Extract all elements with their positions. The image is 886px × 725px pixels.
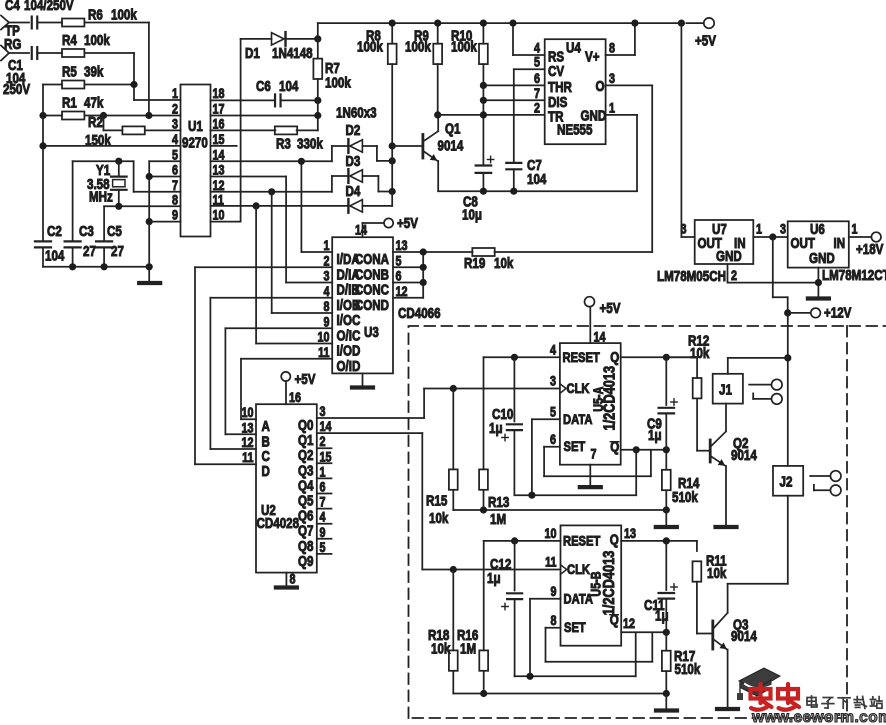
junction: [39, 112, 46, 119]
svg-text:4: 4: [534, 40, 540, 55]
svg-text:7: 7: [591, 446, 597, 461]
transistor Q2 9014: [697, 404, 757, 527]
svg-text:14: 14: [320, 419, 332, 434]
svg-text:1: 1: [323, 238, 329, 253]
svg-text:8: 8: [323, 299, 329, 314]
svg-text:9: 9: [320, 525, 326, 540]
svg-text:1M: 1M: [460, 640, 476, 657]
svg-text:18: 18: [213, 86, 225, 101]
svg-text:14: 14: [213, 147, 225, 162]
svg-text:9: 9: [323, 314, 329, 329]
U2 pin 5 Q9: [298, 540, 326, 569]
junction: [663, 354, 670, 361]
svg-text:Q7: Q7: [298, 522, 313, 539]
diode D2: [346, 122, 363, 153]
resistor R5: [62, 63, 104, 88]
resistor R12: [666, 332, 710, 450]
svg-text:14: 14: [355, 222, 367, 237]
svg-text:10μ: 10μ: [462, 206, 482, 223]
junction: [434, 111, 441, 118]
junction: [450, 385, 457, 392]
wire pin18-pin10 vertical: [211, 39, 241, 222]
diode D4: [346, 183, 363, 213]
svg-text:12: 12: [396, 284, 408, 299]
wire +12V rail into box: [787, 313, 789, 466]
svg-text:LM78M05CH: LM78M05CH: [657, 268, 726, 285]
U5-A DATA pin 5: [532, 404, 560, 495]
svg-text:1μ: 1μ: [487, 570, 501, 587]
power +5V terminal: [678, 18, 716, 237]
svg-text:5: 5: [534, 55, 540, 70]
wire DIS row: [483, 99, 544, 101]
wire U1 pin6: [149, 176, 180, 178]
junction: [146, 218, 153, 225]
input terminal TP: [1, 16, 29, 39]
U2 pin 8 ground: [276, 571, 297, 587]
svg-text:10k: 10k: [429, 510, 449, 527]
svg-text:100k: 100k: [84, 32, 110, 49]
U3 pin 9 O/IC: [323, 314, 360, 343]
junction: [69, 263, 76, 270]
svg-text:U4: U4: [566, 39, 581, 56]
svg-text:10: 10: [317, 329, 329, 344]
svg-text:3: 3: [550, 373, 556, 388]
svg-text:104: 104: [527, 171, 547, 188]
resistor R18: [428, 570, 458, 694]
svg-text:13: 13: [624, 526, 636, 541]
junction: [815, 279, 822, 286]
resistor R2: [85, 114, 181, 149]
U5-B Q row 13: [621, 526, 697, 541]
resistor R7: [313, 39, 351, 101]
U4 pin 2 TR: [534, 100, 564, 125]
IC U7 LM78M05CH: [657, 220, 762, 284]
svg-text:Q: Q: [610, 349, 619, 366]
svg-text:LM78M12CT: LM78M12CT: [822, 267, 886, 284]
junction: [389, 188, 396, 195]
wire C6 right: [281, 99, 318, 101]
svg-text:8: 8: [172, 192, 178, 207]
wire pin17 row: [211, 100, 318, 130]
junction: [663, 690, 670, 697]
resistor R11: [693, 541, 727, 634]
junction: [115, 203, 122, 210]
svg-text:5: 5: [172, 147, 178, 162]
svg-text:R1: R1: [62, 94, 77, 111]
U1 pin 4 number: [172, 132, 178, 147]
U3 pin 1 I/DA: [323, 238, 360, 267]
resistor R19: [423, 248, 652, 271]
junction: [480, 82, 487, 89]
wire D3 right jog: [362, 176, 392, 192]
svg-text:13: 13: [396, 238, 408, 253]
U3 pin 4 I/OB: [323, 284, 360, 313]
svg-text:Q: Q: [610, 531, 619, 548]
U1 pin 17 number: [213, 101, 225, 116]
junction: [39, 142, 46, 149]
wire pin12 row: [211, 191, 332, 193]
wire D2 left jog: [301, 146, 348, 161]
capacitor C3: [65, 161, 96, 267]
svg-text:+5V: +5V: [295, 371, 316, 388]
U1 pin 18 number: [213, 86, 225, 101]
svg-text:10k: 10k: [431, 640, 451, 657]
svg-text:7: 7: [320, 494, 326, 509]
junction: [101, 263, 108, 270]
svg-text:2: 2: [320, 434, 326, 449]
svg-text:IN: IN: [834, 235, 846, 252]
wire D4 right: [362, 205, 392, 207]
junction: [480, 690, 487, 697]
U2 pin 2 Q2: [298, 434, 326, 463]
U2 pin 11 D: [242, 450, 270, 479]
resistor R10: [451, 23, 488, 165]
U5-B RESET pin 10: [484, 526, 561, 541]
wire cap ground row: [43, 266, 149, 268]
capacitor C10: [489, 357, 522, 495]
svg-text:27: 27: [111, 243, 124, 260]
svg-text:1μ: 1μ: [489, 420, 503, 437]
U2 pin 3 Q0: [298, 404, 326, 433]
U2 pin 9 Q8: [298, 525, 326, 554]
svg-text:O/ID: O/ID: [337, 358, 361, 375]
junction: [663, 629, 670, 636]
U1 pin 6 number: [172, 162, 178, 177]
wire R5 left: [43, 84, 62, 86]
ground: [139, 267, 160, 283]
svg-text:8: 8: [550, 613, 556, 628]
U1 pin 7 number: [172, 178, 178, 193]
junction: [314, 35, 321, 42]
resistor R15: [426, 389, 458, 527]
U2 Q5 stub: [317, 493, 332, 495]
junction: [510, 188, 517, 195]
U2 Q8 stub: [317, 538, 332, 540]
wire C12-DATA-Qbar link: [515, 632, 636, 676]
resistor R8: [357, 23, 397, 206]
svg-text:15: 15: [320, 449, 332, 464]
resistor R1: [62, 94, 104, 119]
capacitor C4: [5, 0, 74, 28]
U5-A pin 7 ground: [580, 446, 601, 487]
capacitor C1: [3, 47, 62, 97]
svg-text:CONC: CONC: [355, 281, 390, 298]
svg-text:4: 4: [550, 342, 556, 357]
U2 pin 14 Q1: [298, 419, 332, 448]
junction: [633, 446, 640, 453]
crystal Y1: [87, 161, 127, 206]
svg-text:100k: 100k: [325, 74, 351, 91]
svg-text:39k: 39k: [84, 63, 104, 80]
wire U1 pin11 to U3 pin10: [256, 206, 332, 344]
capacitor C5: [96, 206, 124, 266]
wire U2 Q0 to U5A CLK: [317, 389, 424, 419]
U2 pin 12 C: [241, 435, 270, 464]
svg-text:330k: 330k: [297, 135, 323, 152]
svg-text:1/2CD4013: 1/2CD4013: [601, 551, 619, 616]
svg-text:C6: C6: [256, 78, 271, 95]
svg-text:10k: 10k: [494, 255, 514, 272]
wire U3 pin9 to U2 B: [225, 328, 332, 434]
svg-text:3: 3: [323, 268, 329, 283]
wire CON bus: [393, 252, 423, 298]
svg-text:RESET: RESET: [563, 533, 601, 548]
wire U1 pin5 gnd net: [149, 161, 180, 266]
svg-text:15: 15: [213, 132, 225, 147]
svg-text:100k: 100k: [357, 38, 383, 55]
U7 GND pin 2: [728, 264, 819, 283]
U3 pin 3 D/IB: [323, 268, 359, 297]
wire pin11 row: [211, 205, 349, 207]
junction: [314, 97, 321, 104]
svg-text:CD4066: CD4066: [398, 305, 441, 322]
dashed enclosure: [409, 326, 886, 718]
J1 contact: [749, 379, 782, 404]
U3 pin 11 O/ID: [318, 345, 360, 374]
svg-text:GND: GND: [716, 248, 742, 265]
svg-text:R3: R3: [276, 135, 291, 152]
watermark text site: [807, 696, 882, 708]
svg-text:7: 7: [534, 86, 540, 101]
U2 Q6 stub: [317, 508, 332, 510]
wire U7 IN row: [753, 236, 787, 238]
svg-text:Q9: Q9: [298, 553, 313, 570]
wire pin2 row: [85, 115, 181, 117]
svg-text:1: 1: [172, 86, 178, 101]
U2 pin 7 Q6: [298, 494, 326, 523]
junction: [389, 20, 396, 27]
svg-text:Q: Q: [610, 438, 619, 455]
svg-text:5: 5: [320, 540, 326, 555]
svg-text:4: 4: [172, 132, 178, 147]
svg-text:6: 6: [396, 268, 402, 283]
svg-text:16: 16: [289, 390, 301, 405]
svg-text:2: 2: [731, 268, 737, 283]
capacitor C9: [647, 357, 677, 450]
capacitor C6: [256, 78, 299, 107]
svg-text:104: 104: [279, 78, 299, 95]
svg-text:4: 4: [323, 284, 329, 299]
svg-text:CONA: CONA: [355, 251, 390, 268]
svg-text:Q4: Q4: [298, 477, 314, 494]
svg-text:R13: R13: [488, 494, 509, 511]
J2 contact: [810, 471, 841, 496]
svg-text:Q6: Q6: [298, 507, 313, 524]
svg-text:8: 8: [290, 571, 296, 586]
U5-A SET pin 6: [544, 432, 651, 476]
svg-text:J2: J2: [780, 473, 793, 490]
svg-text:J1: J1: [719, 381, 732, 398]
wire pin13 to U3 pin3: [211, 177, 333, 283]
U1 pin 3 number: [172, 116, 178, 131]
U3 pin 8 I/OC: [323, 299, 360, 328]
capacitor C12: [487, 541, 522, 676]
junction: [511, 537, 518, 544]
svg-text:7: 7: [172, 178, 178, 193]
svg-text:13: 13: [213, 162, 225, 177]
svg-text:3: 3: [780, 221, 786, 236]
resistor R16: [457, 541, 488, 694]
svg-text:3: 3: [680, 221, 686, 236]
wire R1 left: [43, 115, 62, 117]
U4 pin 6 THR: [534, 71, 572, 96]
svg-text:5: 5: [550, 404, 556, 419]
svg-text:1: 1: [609, 100, 615, 115]
svg-text:SET: SET: [564, 620, 586, 635]
junction: [480, 111, 487, 118]
U3 pin 5 CONB: [355, 253, 402, 282]
svg-text:510k: 510k: [672, 489, 698, 506]
junction: [434, 20, 441, 27]
wire U1 pin12 to U3 pin8: [272, 192, 333, 313]
U3 pin 12 COND: [355, 284, 408, 313]
junction: [146, 173, 153, 180]
junction: [480, 188, 487, 195]
svg-text:U6: U6: [810, 221, 825, 238]
svg-text:+18V: +18V: [856, 241, 884, 258]
svg-text:104/250V: 104/250V: [24, 0, 74, 13]
wire R6 to pin2 node: [85, 23, 149, 116]
svg-text:11: 11: [318, 345, 330, 360]
wire U1 pin9: [149, 221, 180, 223]
svg-text:1: 1: [320, 464, 326, 479]
resistor R14: [662, 450, 700, 510]
svg-text:C: C: [262, 448, 271, 465]
svg-text:9: 9: [172, 207, 178, 222]
U2 pin 13 B: [241, 420, 269, 449]
capacitor C7: [506, 69, 547, 191]
diode D3: [332, 153, 363, 192]
wire Q3 collector to J2: [728, 496, 788, 584]
resistor R17: [662, 632, 701, 693]
U2 Q4 stub: [317, 477, 332, 479]
svg-text:8: 8: [609, 40, 615, 55]
wire pin14 to U3 pin1: [211, 161, 333, 252]
diode D1 1N4148: [241, 32, 318, 61]
U2 pin 10 A: [241, 405, 270, 434]
U2 pin 1 Q4: [298, 464, 326, 493]
svg-text:9014: 9014: [731, 628, 757, 645]
svg-text:Q1: Q1: [298, 432, 313, 449]
svg-text:12: 12: [623, 616, 635, 631]
wire THR row: [483, 84, 544, 86]
svg-text:1: 1: [756, 221, 762, 236]
transistor Q3 9014: [697, 584, 758, 709]
U2 Q9 stub: [317, 553, 332, 555]
junction: [100, 112, 107, 119]
svg-text:9014: 9014: [438, 137, 464, 154]
wire bottom ground row: [453, 693, 666, 695]
svg-text:COND: COND: [355, 297, 389, 314]
junction: [420, 248, 427, 255]
junction: [480, 506, 487, 513]
junction: [509, 20, 516, 27]
svg-text:O/IC: O/IC: [337, 327, 361, 344]
U1 pin 10 number: [213, 207, 225, 222]
ground: [808, 296, 829, 300]
U2 pin 6 Q5: [298, 479, 326, 508]
resistor R4: [62, 32, 110, 57]
U1 pin 8 number: [172, 192, 178, 207]
junction: [298, 158, 305, 165]
junction: [420, 264, 427, 271]
svg-text:U3: U3: [364, 324, 379, 341]
svg-text:C5: C5: [107, 223, 122, 240]
svg-text:6: 6: [320, 479, 326, 494]
power +12V terminal: [784, 304, 852, 321]
svg-text:A: A: [262, 418, 271, 435]
U4 pin 3 output: [596, 71, 653, 252]
U5-B DATA pin 9: [530, 584, 561, 676]
svg-text:10: 10: [544, 526, 556, 541]
resistor R13: [479, 357, 509, 527]
resistor R9: [405, 23, 442, 115]
capacitor C2: [35, 223, 65, 267]
U1 pin 13 number: [213, 162, 225, 177]
wire pin18 row: [211, 99, 276, 101]
U2 Q2 stub: [317, 447, 332, 449]
svg-text:+12V: +12V: [824, 304, 852, 321]
junction: [663, 446, 670, 453]
svg-text:1μ: 1μ: [648, 427, 662, 444]
svg-text:CLK: CLK: [567, 562, 591, 577]
U1 pin 1 number: [172, 86, 178, 101]
svg-text:100k: 100k: [405, 38, 431, 55]
IC U2 CD4028: [256, 404, 317, 572]
svg-text:D4: D4: [346, 183, 361, 200]
svg-text:R15: R15: [426, 492, 447, 509]
svg-text:CONB: CONB: [355, 266, 389, 283]
svg-text:1/2CD4013: 1/2CD4013: [601, 366, 619, 431]
capacitor C11: [644, 541, 677, 632]
junction: [631, 20, 638, 27]
svg-text:6: 6: [172, 162, 178, 177]
svg-text:14: 14: [594, 329, 606, 344]
svg-text:R4: R4: [62, 32, 77, 49]
svg-text:10k: 10k: [690, 345, 710, 362]
input terminal RG: [1, 36, 29, 61]
svg-text:GND: GND: [809, 250, 835, 267]
label 1N60x3: [336, 104, 377, 121]
U1 pin 14 number: [213, 147, 225, 162]
svg-text:+5V: +5V: [600, 300, 621, 317]
junction: [526, 673, 533, 680]
svg-text:CLK: CLK: [567, 381, 591, 396]
resistor R6: [62, 6, 137, 26]
svg-text:9270: 9270: [182, 134, 208, 151]
ground: [656, 510, 677, 527]
svg-text:I/OC: I/OC: [337, 312, 361, 329]
U5-B Qbar row 12: [621, 616, 666, 632]
svg-text:Q3: Q3: [298, 462, 313, 479]
svg-text:10k: 10k: [707, 565, 727, 582]
junction: [663, 537, 670, 544]
wire Q1 emitter row: [438, 190, 637, 192]
wire pin15 stub: [211, 145, 237, 147]
U3 pin 14 +5V: [355, 215, 418, 238]
junction: [115, 158, 122, 165]
U3 ground stub: [352, 373, 373, 387]
svg-text:O: O: [596, 78, 605, 95]
IC U3 CD4066: [332, 237, 440, 373]
junction: [450, 566, 457, 573]
svg-text:R19: R19: [464, 255, 485, 272]
wire crystal net to pin7: [73, 161, 181, 192]
svg-text:Q0: Q0: [298, 417, 313, 434]
svg-text:U1: U1: [188, 118, 203, 135]
svg-text:10: 10: [241, 405, 253, 420]
U6 GND stub: [817, 268, 819, 297]
